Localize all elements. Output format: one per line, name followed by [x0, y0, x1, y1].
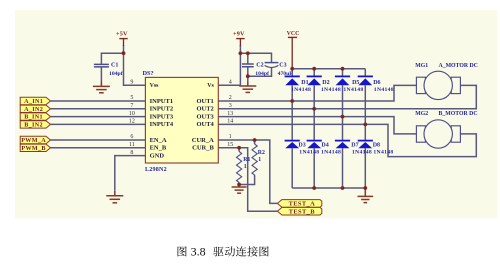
svg-text:14: 14 [227, 119, 233, 125]
svg-text:L298N2: L298N2 [145, 167, 167, 173]
svg-text:1N4148: 1N4148 [374, 87, 394, 93]
svg-text:1: 1 [258, 157, 261, 163]
svg-text:INPUT2: INPUT2 [150, 106, 173, 113]
svg-text:11: 11 [129, 142, 135, 148]
svg-text:INPUT3: INPUT3 [150, 113, 174, 120]
svg-text:OUT2: OUT2 [196, 106, 213, 113]
svg-text:MG1: MG1 [415, 63, 428, 69]
svg-text:PWM_A: PWM_A [21, 138, 46, 144]
svg-text:TEST_B: TEST_B [289, 208, 316, 215]
svg-text:104pf: 104pf [109, 71, 123, 77]
svg-text:D4: D4 [321, 143, 328, 149]
svg-text:+5V: +5V [116, 30, 128, 37]
svg-text:C3: C3 [279, 62, 286, 68]
svg-text:1N4148: 1N4148 [299, 149, 319, 155]
svg-text:1N4148: 1N4148 [321, 149, 341, 155]
svg-text:1N4148: 1N4148 [291, 87, 311, 93]
svg-text:1N4148: 1N4148 [321, 87, 341, 93]
svg-text:+9V: +9V [233, 30, 245, 37]
svg-text:TEST_A: TEST_A [289, 201, 316, 208]
svg-text:EN_B: EN_B [150, 145, 167, 152]
svg-text:OUT3: OUT3 [196, 113, 214, 120]
svg-text:EN_A: EN_A [150, 137, 167, 144]
svg-text:OUT1: OUT1 [196, 98, 213, 105]
svg-text:D8: D8 [373, 143, 380, 149]
svg-text:3: 3 [229, 103, 232, 109]
svg-text:D3: D3 [298, 143, 305, 149]
svg-text:R1: R1 [243, 157, 250, 163]
svg-text:470uF: 470uF [278, 71, 294, 77]
svg-text:2: 2 [229, 95, 232, 101]
svg-text:OUT4: OUT4 [196, 121, 214, 128]
svg-text:1N4148: 1N4148 [343, 87, 363, 93]
svg-text:INPUT1: INPUT1 [150, 98, 173, 105]
svg-text:PWM_B: PWM_B [21, 146, 45, 152]
svg-text:D6: D6 [373, 80, 380, 86]
svg-text:CUR_B: CUR_B [192, 145, 214, 152]
svg-text:8: 8 [130, 150, 133, 156]
svg-text:CUR_A: CUR_A [192, 137, 214, 144]
svg-text:C1: C1 [111, 62, 118, 68]
svg-text:10: 10 [129, 111, 135, 117]
svg-text:A_IN1: A_IN1 [24, 99, 43, 105]
svg-text:1N4148: 1N4148 [373, 149, 393, 155]
svg-text:D2: D2 [322, 80, 329, 86]
svg-text:D5: D5 [352, 80, 359, 86]
svg-text:1: 1 [229, 134, 232, 140]
svg-text:1N4148: 1N4148 [352, 149, 372, 155]
svg-text:B_IN2: B_IN2 [24, 123, 43, 129]
svg-text:MG2: MG2 [415, 111, 428, 117]
svg-text:Vs: Vs [207, 83, 214, 89]
svg-text:4: 4 [229, 80, 232, 86]
svg-text:C2: C2 [256, 62, 263, 68]
svg-text:6: 6 [130, 134, 133, 140]
svg-text:1: 1 [244, 164, 247, 170]
svg-text:Vss: Vss [150, 83, 160, 89]
svg-text:R2: R2 [258, 150, 265, 156]
svg-text:GND: GND [150, 152, 165, 159]
svg-text:B_IN1: B_IN1 [24, 115, 43, 121]
svg-text:D7: D7 [351, 143, 358, 149]
svg-text:DS?: DS? [143, 70, 154, 77]
svg-text:D1: D1 [301, 80, 308, 86]
svg-text:15: 15 [227, 142, 233, 148]
svg-text:A_MOTOR DC: A_MOTOR DC [439, 63, 478, 69]
svg-text:7: 7 [130, 103, 133, 109]
svg-text:104pf: 104pf [255, 71, 269, 77]
svg-text:13: 13 [227, 111, 233, 117]
svg-text:3.8: 3.8 [191, 245, 206, 259]
svg-text:9: 9 [130, 80, 133, 86]
svg-text:B_MOTOR DC: B_MOTOR DC [439, 111, 478, 117]
svg-text:A_IN2: A_IN2 [24, 107, 43, 113]
svg-text:5: 5 [130, 95, 133, 101]
svg-text:12: 12 [129, 119, 135, 125]
svg-text:VCC: VCC [287, 31, 300, 37]
svg-text:INPUT4: INPUT4 [150, 121, 174, 128]
